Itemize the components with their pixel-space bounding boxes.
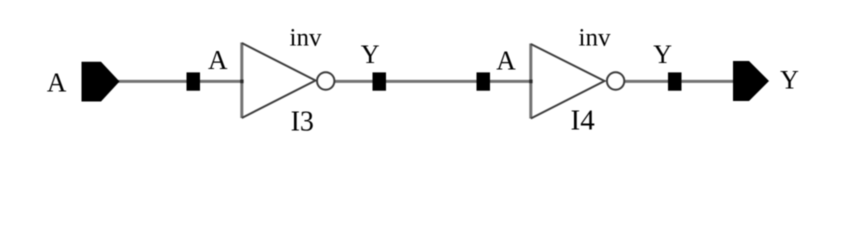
svg-text:inv: inv bbox=[579, 25, 611, 52]
svg-text:A: A bbox=[47, 68, 67, 98]
svg-text:A: A bbox=[496, 45, 516, 75]
svg-text:A: A bbox=[208, 45, 228, 75]
svg-text:Y: Y bbox=[780, 66, 799, 95]
svg-text:Y: Y bbox=[653, 40, 672, 69]
svg-text:inv: inv bbox=[290, 25, 322, 52]
svg-text:I4: I4 bbox=[571, 105, 596, 137]
svg-text:I3: I3 bbox=[291, 106, 314, 137]
svg-text:Y: Y bbox=[361, 40, 380, 69]
